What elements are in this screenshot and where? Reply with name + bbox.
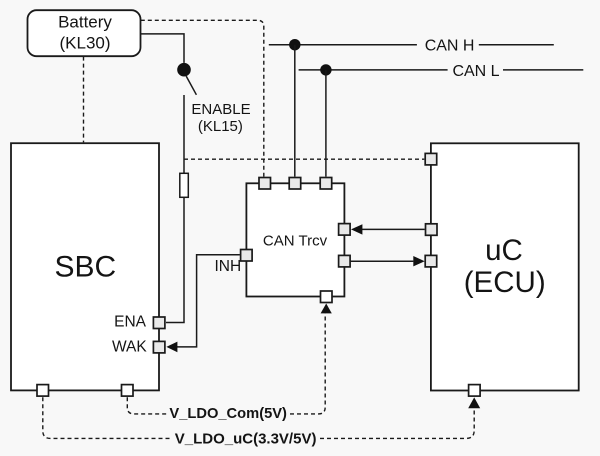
CAN L bus wire right segment: [503, 69, 583, 71]
CAN L bus wire left segment: [299, 69, 448, 71]
arrowhead into uC supply pin: [468, 397, 480, 408]
junction dot CAN L: [320, 64, 331, 75]
svg-text:(KL30): (KL30): [59, 34, 110, 53]
svg-text:INH: INH: [214, 258, 241, 275]
wire battery to CAN Trcv VBAT pin (dashed): [141, 20, 264, 176]
CAN Trcv box: [246, 183, 344, 296]
wire resistor to SBC ENA pin: [166, 197, 184, 322]
svg-text:CAN Trcv: CAN Trcv: [263, 232, 328, 249]
net V_LDO_uC dashed from SBC pin: [43, 397, 171, 438]
wire CAN Trcv INH to SBC WAK (with arrow): [177, 255, 240, 347]
svg-text:Battery: Battery: [58, 13, 112, 32]
pin CAN Trcv INH (left): [241, 250, 253, 262]
svg-text:V_LDO_Com(5V): V_LDO_Com(5V): [169, 406, 287, 422]
resistor R1: [180, 173, 189, 197]
pin SBC V_LDO_uC (bottom left): [37, 385, 49, 397]
pin SBC V_LDO_Com (bottom right): [122, 385, 134, 397]
svg-text:ENA: ENA: [114, 314, 147, 331]
pin CAN Trcv RXD (right top): [339, 224, 351, 236]
uC box: [431, 143, 579, 390]
svg-text:uC: uC: [485, 234, 523, 267]
arrowhead into CAN Trcv RXD pin: [351, 224, 362, 234]
wire switch to resistor: [183, 95, 185, 173]
svg-text:CAN L: CAN L: [452, 63, 499, 80]
pin uC enable input (top left): [425, 153, 437, 165]
arrowhead into uC TXD pin: [413, 256, 424, 266]
wire enable net to uC pin (dashed): [184, 158, 424, 160]
label ENABLE (KL15): [191, 101, 250, 135]
pin CAN Trcv VCC (bottom): [321, 291, 333, 303]
pin CAN Trcv VBAT (top left): [259, 178, 271, 190]
arrowhead into CAN Trcv supply pin: [321, 304, 332, 314]
svg-text:CAN H: CAN H: [425, 38, 475, 55]
wire CAN L to CAN Trcv pin: [325, 70, 327, 177]
pin uC supply (bottom): [469, 385, 481, 397]
CAN H bus wire left segment: [269, 44, 417, 46]
pin SBC ENA: [153, 317, 165, 329]
svg-text:V_LDO_uC(3.3V/5V): V_LDO_uC(3.3V/5V): [175, 431, 317, 448]
wire battery to switch: [141, 34, 184, 63]
wire CAN Trcv TXD from uC (arrow into uC): [351, 260, 414, 262]
pin CAN Trcv CANH (top mid): [289, 178, 301, 190]
svg-text:(ECU): (ECU): [464, 266, 546, 299]
net V_LDO_uC dashed to uC (with arrow): [320, 408, 474, 438]
net V_LDO_Com(5V) dashed from SBC pin: [127, 397, 166, 414]
battery B1 (KL30): [28, 10, 141, 56]
wire CAN H to CAN Trcv pin: [294, 45, 296, 177]
CAN H bus wire right segment: [479, 44, 554, 46]
arrowhead into WAK: [166, 342, 177, 353]
SBC box: [11, 143, 159, 390]
svg-text:ENABLE: ENABLE: [191, 101, 250, 118]
pin CAN Trcv CANL (top right): [320, 178, 332, 190]
junction dot CAN H: [289, 39, 300, 50]
switch S1 node (dot): [177, 63, 191, 77]
pin uC RXD: [426, 224, 438, 236]
pin uC TXD: [425, 255, 437, 267]
svg-text:WAK: WAK: [112, 338, 147, 355]
svg-text:SBC: SBC: [54, 251, 116, 284]
switch S1 blade: [186, 76, 196, 95]
pin SBC WAK: [153, 341, 165, 353]
net V_LDO_Com(5V) dashed to CAN Trcv (with arrow): [290, 313, 325, 414]
wire CAN Trcv RXD to uC (arrow into Trcv): [362, 228, 425, 230]
svg-text:(KL15): (KL15): [198, 118, 243, 135]
wire battery to SBC (dashed KL30 supply): [83, 57, 85, 143]
pin CAN Trcv TXD (right bottom): [339, 255, 351, 267]
